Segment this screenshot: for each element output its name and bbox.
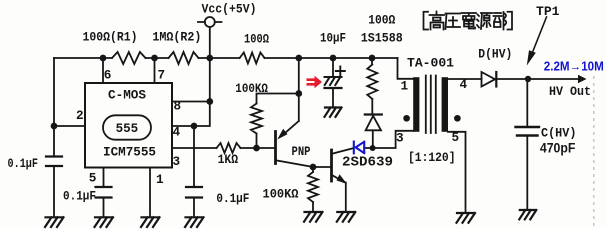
- node collector/diode junction: [370, 145, 376, 151]
- svg-text:555: 555: [116, 121, 139, 136]
- svg-text:0.1µF: 0.1µF: [8, 156, 39, 171]
- wire bus corner to transformer pin 1: [398, 58, 414, 79]
- svg-text:ICM7555: ICM7555: [103, 144, 156, 159]
- svg-text:10µF: 10µF: [320, 31, 346, 46]
- svg-text:PNP: PNP: [292, 144, 311, 159]
- svg-text:C-MOS: C-MOS: [108, 88, 146, 103]
- wire main Vcc bus: [54, 57, 398, 59]
- svg-text:2: 2: [76, 108, 84, 123]
- wire bus to PNP emitter: [298, 58, 300, 121]
- resistor R1 100ohm: [112, 52, 146, 64]
- transistor Q1 PNP: [274, 132, 277, 164]
- transistor Q2 2SD639: [330, 150, 333, 181]
- blue marker on collector: [354, 142, 364, 154]
- svg-text:1KΩ: 1KΩ: [218, 152, 239, 167]
- ground 10uF: [325, 108, 342, 117]
- node pin8 junction: [206, 98, 213, 105]
- node base/100K junction: [253, 145, 260, 152]
- capacitor 10uF electrolytic: [332, 58, 334, 77]
- svg-text:TA-001: TA-001: [407, 56, 454, 71]
- wire pin 4: [172, 125, 194, 127]
- svg-text:4: 4: [460, 77, 468, 92]
- wire secondary bottom to ground: [448, 132, 466, 213]
- node bus/emitter branch: [295, 55, 302, 62]
- wire pin 6: [102, 58, 104, 83]
- transformer core: [426, 76, 436, 134]
- node PNP collector / 2SD base: [310, 164, 317, 171]
- IC ellipse around 555: [103, 115, 151, 139]
- wire pin 3 output: [172, 147, 217, 149]
- svg-text:C(HV): C(HV): [541, 126, 576, 141]
- svg-text:8: 8: [174, 99, 182, 114]
- svg-text:100Ω: 100Ω: [368, 12, 395, 27]
- wire pin 8: [172, 101, 210, 103]
- TP1 arrow: [533, 17, 547, 51]
- resistor 100Kohm lower: [312, 167, 314, 172]
- svg-text:1: 1: [401, 79, 409, 94]
- svg-text:0.1µF: 0.1µF: [63, 189, 96, 204]
- capacitor C 0.1uF left: [46, 157, 62, 167]
- ground pin5 cap: [95, 217, 114, 227]
- svg-text:6: 6: [104, 68, 112, 83]
- wire to PNP base: [241, 147, 275, 149]
- svg-text:1S1588: 1S1588: [361, 31, 403, 46]
- ground pin1: [141, 217, 160, 227]
- node pin2/left-cap junction: [51, 123, 58, 130]
- label [高圧電源部] hand-drawn kanji: [424, 12, 513, 30]
- wire left vertical (pins 2/6 tie): [53, 58, 55, 156]
- svg-text:3: 3: [396, 131, 404, 146]
- red arrow marker: [307, 76, 323, 89]
- transformer secondary: [442, 77, 448, 132]
- capacitor C(HV) 470pF: [526, 79, 528, 127]
- svg-text:100KΩ: 100KΩ: [263, 186, 299, 201]
- node snubber on bus: [369, 55, 376, 62]
- node pin6 on bus: [100, 55, 107, 62]
- svg-text:D(HV): D(HV): [478, 47, 512, 62]
- svg-text:100KΩ: 100KΩ: [235, 81, 268, 96]
- resistor 100Kohm upper: [251, 104, 262, 134]
- svg-text:HV Out: HV Out: [549, 84, 591, 99]
- svg-text:TP1: TP1: [536, 4, 560, 19]
- svg-text:0.1µF: 0.1µF: [216, 191, 249, 206]
- wire secondary top to diode: [448, 78, 482, 80]
- svg-text:1MΩ(R2): 1MΩ(R2): [152, 30, 201, 45]
- resistor R2 1Mohm: [169, 52, 199, 64]
- Vcc terminal: [205, 17, 215, 27]
- node emitter/100K junction: [295, 90, 302, 97]
- node pin7 on bus: [151, 55, 158, 62]
- capacitor 0.1uF pin4 decoupling: [193, 126, 195, 187]
- wire pin 7: [154, 58, 156, 83]
- wire Vcc down to pins 8/4: [194, 58, 210, 126]
- ground transformer pin5: [457, 213, 476, 223]
- wire pin 2: [54, 125, 85, 127]
- node pin4 decoupling junction: [191, 123, 198, 130]
- svg-text:3: 3: [173, 154, 181, 169]
- svg-text:100Ω: 100Ω: [244, 32, 269, 47]
- node Vcc on bus: [206, 55, 213, 62]
- node TP1: [525, 76, 531, 82]
- wire to 2SD639 base: [313, 166, 330, 168]
- diode 1S1588: [371, 99, 373, 114]
- wire pin 1: [149, 168, 151, 218]
- svg-text:5: 5: [452, 130, 460, 145]
- output arrowhead: [578, 75, 587, 83]
- ground left cap: [45, 217, 64, 227]
- transformer T1 TA-001 primary: [413, 77, 419, 132]
- ground 2SD emitter: [337, 212, 356, 222]
- resistor 100ohm snubber: [371, 58, 373, 65]
- ground C(HV): [519, 210, 536, 219]
- wire HV out: [496, 78, 580, 80]
- capacitor 0.1uF pin5: [96, 187, 112, 198]
- svg-text:2SD639: 2SD639: [342, 155, 393, 170]
- wire collector node to transformer pin 3: [373, 131, 414, 148]
- ground 100K lower: [304, 212, 323, 222]
- svg-text:100Ω(R1): 100Ω(R1): [83, 30, 138, 45]
- scan edge dashed line: [593, 76, 595, 229]
- svg-text:[1:120]: [1:120]: [408, 150, 456, 165]
- svg-text:1: 1: [156, 172, 164, 187]
- svg-text:7: 7: [158, 68, 166, 83]
- ground pin4 cap: [185, 217, 204, 227]
- IC U1 ICM7555 box: [85, 83, 172, 168]
- transformer phase dots: [403, 115, 410, 122]
- svg-text:Vcc(+5V): Vcc(+5V): [202, 1, 257, 16]
- svg-text:4: 4: [173, 125, 181, 140]
- wire pin 5: [103, 168, 105, 188]
- diode D(HV): [482, 72, 496, 87]
- svg-text:2.2M→10M: 2.2M→10M: [544, 60, 604, 74]
- svg-text:5: 5: [89, 171, 97, 186]
- svg-text:470pF: 470pF: [540, 140, 576, 156]
- resistor 1Kohm: [217, 143, 241, 153]
- resistor 100ohm (bus, after Vcc): [240, 53, 265, 64]
